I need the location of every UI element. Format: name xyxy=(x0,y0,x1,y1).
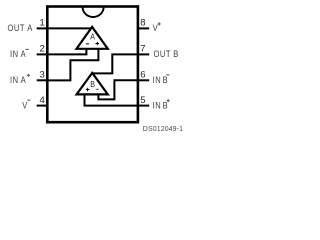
svg-text:7: 7 xyxy=(140,44,145,55)
svg-text:V: V xyxy=(153,22,159,33)
wire op-amp B non-inverting input to pin 5 xyxy=(85,95,138,106)
label IN B- (pin 6) xyxy=(153,74,169,85)
pin 5 lead xyxy=(138,105,149,107)
wire op-amp B inverting input to pin 6 xyxy=(98,80,137,99)
op-amp B plus input mark xyxy=(86,88,90,92)
svg-text:2: 2 xyxy=(40,44,45,55)
wire pin1 to op-amp A output xyxy=(47,27,91,29)
label IN B+ (pin 5) xyxy=(153,100,169,111)
wire pin3 to op-amp A non-inverting input xyxy=(47,49,98,81)
pin 6 lead xyxy=(138,79,149,81)
svg-text:5: 5 xyxy=(140,95,145,106)
pin 8 lead xyxy=(138,27,149,29)
op-amp B triangle xyxy=(77,73,108,95)
op-amp A minus input mark xyxy=(86,43,89,44)
pin 4 lead xyxy=(37,105,48,107)
svg-text:1: 1 xyxy=(40,18,45,29)
pin 2 lead xyxy=(37,53,48,55)
svg-text:A: A xyxy=(21,74,27,85)
svg-text:A: A xyxy=(90,32,95,42)
svg-text:OUT: OUT xyxy=(8,22,25,33)
svg-text:3: 3 xyxy=(40,70,45,81)
pin 3 lead xyxy=(37,79,48,81)
svg-text:IN: IN xyxy=(10,49,19,60)
pin 1 lead xyxy=(37,27,48,29)
label V- (pin 4) xyxy=(22,100,28,111)
svg-text:B: B xyxy=(163,100,169,111)
svg-text:OUT: OUT xyxy=(154,49,171,60)
label IN A- (pin 2) xyxy=(10,49,26,60)
svg-text:8: 8 xyxy=(140,18,145,29)
label OUT B (pin 7) xyxy=(154,49,179,60)
svg-text:IN: IN xyxy=(10,74,19,85)
op-amp B label xyxy=(90,80,95,90)
op-amp A label xyxy=(90,32,95,42)
label V+ (pin 8) xyxy=(153,22,159,33)
svg-text:B: B xyxy=(90,80,95,90)
svg-text:IN: IN xyxy=(153,100,162,111)
pin 7 lead xyxy=(138,53,149,55)
label IN A+ (pin 3) xyxy=(10,74,26,85)
label OUT A (pin 1) xyxy=(8,22,33,33)
op-amp B minus input mark xyxy=(96,89,99,90)
svg-text:A: A xyxy=(27,22,33,33)
svg-text:6: 6 xyxy=(140,70,145,81)
op-amp A plus input mark xyxy=(96,42,100,46)
svg-text:4: 4 xyxy=(40,95,45,106)
svg-text:B: B xyxy=(173,49,179,60)
wire pin2 to op-amp A inverting input xyxy=(47,49,86,55)
IC package U1 DIP-8 outline xyxy=(47,7,138,123)
svg-text:B: B xyxy=(163,74,169,85)
op-amp A triangle xyxy=(77,27,108,49)
svg-text:V: V xyxy=(22,100,28,111)
svg-text:A: A xyxy=(21,49,27,60)
svg-text:DS012049-1: DS012049-1 xyxy=(143,126,183,133)
svg-text:IN: IN xyxy=(153,74,162,85)
wire op-amp B output to pin 7 xyxy=(93,54,138,73)
pin-1 index notch (half-circle below top edge) xyxy=(83,7,104,17)
